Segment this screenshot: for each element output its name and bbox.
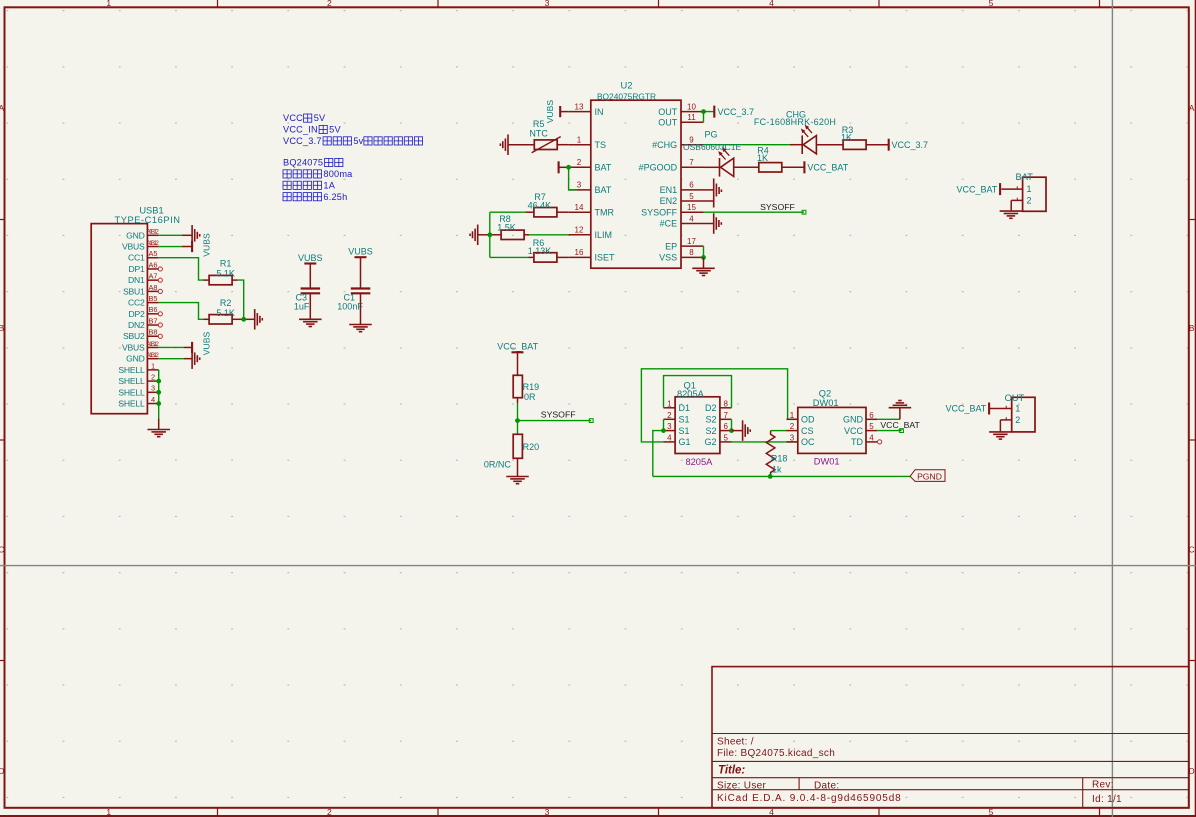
wire S1 pins (663, 419, 665, 430)
svg-text:2: 2 (577, 158, 582, 167)
svg-text:3: 3 (577, 181, 582, 190)
power bar at U2 BAT (558, 161, 560, 173)
svg-text:3: 3 (790, 434, 795, 443)
svg-text:3: 3 (151, 384, 155, 393)
svg-text:OUT: OUT (658, 117, 678, 127)
svg-text:CC1: CC1 (128, 253, 145, 263)
svg-text:5: 5 (869, 422, 874, 431)
ground below USB shell (147, 430, 170, 437)
wire CHG pin to LED (704, 144, 791, 146)
svg-text:1uF: 1uF (294, 301, 310, 311)
svg-text:5.1K: 5.1K (216, 269, 235, 279)
svg-text:6: 6 (869, 411, 874, 420)
svg-text:TMR: TMR (595, 207, 615, 217)
svg-text:C: C (0, 545, 4, 555)
ground right of Q1 (743, 420, 751, 441)
power symbol VCC_BAT at BAT (999, 183, 1001, 195)
wire VUBS to C1 (360, 257, 362, 288)
wire CS to R18 (771, 430, 787, 432)
wire ISET left (490, 256, 529, 258)
svg-text:11: 11 (687, 113, 696, 122)
ground at CE (714, 213, 722, 234)
power symbol VUBS at U2 IN (559, 106, 561, 117)
ground below OUT (989, 432, 1012, 439)
svg-text:1A: 1A (323, 180, 335, 190)
svg-text:ISET: ISET (595, 253, 616, 263)
svg-text:SHELL: SHELL (118, 399, 145, 409)
svg-text:EN2: EN2 (660, 196, 678, 206)
svg-text:VUBS: VUBS (298, 253, 323, 263)
svg-text:VCC_BAT: VCC_BAT (956, 184, 997, 194)
svg-text:A8: A8 (148, 283, 157, 292)
svg-text:5: 5 (689, 192, 694, 201)
svg-text:2: 2 (1015, 415, 1020, 425)
junction at OUT (701, 109, 706, 114)
svg-text:TS: TS (595, 140, 607, 150)
svg-text:VCC: VCC (283, 113, 303, 123)
junction SHELL3 (156, 390, 161, 395)
svg-text:Rev:: Rev: (1092, 780, 1114, 791)
svg-text:VCC_3.7: VCC_3.7 (718, 107, 755, 117)
IC U2 BQ24075RGTR (591, 100, 681, 268)
svg-text:VCC_BAT: VCC_BAT (807, 163, 848, 173)
wire USB VBUS pin (159, 246, 182, 248)
svg-text:17: 17 (687, 237, 696, 246)
svg-text:5: 5 (723, 434, 728, 443)
resistor R3 1K (843, 140, 866, 149)
ground below C1 (349, 325, 372, 332)
junction at SYSOFF (515, 418, 520, 423)
note text input limit 1A (283, 181, 291, 189)
wire USB GND pin (159, 234, 182, 236)
svg-text:1: 1 (577, 136, 582, 145)
svg-text:S2: S2 (705, 415, 716, 425)
svg-text:6: 6 (723, 422, 728, 431)
svg-text:R5: R5 (533, 119, 545, 129)
wire EP to VSS (703, 246, 705, 257)
transistor Q2 DW01 (798, 407, 866, 453)
wire junction to R20 (517, 421, 519, 435)
svg-text:D: D (0, 766, 4, 776)
svg-text:BQ24075RGTR: BQ24075RGTR (597, 91, 656, 101)
wire R3 to VCC_3.7 (866, 144, 889, 146)
capacitor C1 100nF (351, 287, 371, 289)
svg-text:R20: R20 (523, 442, 540, 452)
svg-text:D2: D2 (705, 403, 717, 413)
svg-text:14: 14 (575, 203, 584, 212)
transistor Q1 8205A (675, 397, 720, 454)
svg-text:BAT: BAT (1016, 172, 1034, 182)
unconnected pin marker TD (878, 440, 882, 444)
svg-text:5.1K: 5.1K (216, 308, 235, 318)
wire ground to R5 (508, 144, 534, 146)
svg-text:#CHG: #CHG (652, 140, 677, 150)
wire VCC pin to label (877, 430, 901, 432)
svg-text:S1: S1 (679, 426, 690, 436)
svg-text:SHELL: SHELL (118, 365, 145, 375)
wire R1 right (232, 279, 238, 281)
svg-text:A7: A7 (148, 272, 157, 281)
svg-text:1.5K: 1.5K (497, 223, 516, 233)
svg-text:4: 4 (689, 214, 694, 223)
svg-text:B5: B5 (148, 294, 157, 303)
svg-text:VBUS: VBUS (122, 242, 145, 252)
connector OUT (1012, 397, 1035, 432)
svg-text:Date:: Date: (814, 780, 839, 791)
wire R20 to ground (517, 458, 519, 476)
wire up to inverted ground (899, 408, 901, 420)
svg-text:1: 1 (1015, 404, 1020, 414)
svg-text:VBUS: VBUS (122, 342, 145, 352)
svg-text:7: 7 (689, 158, 694, 167)
wire end VCC_BAT (900, 429, 904, 433)
wire S2 to ground (732, 430, 743, 432)
svg-text:SHELL: SHELL (118, 376, 145, 386)
svg-text:S1: S1 (679, 415, 690, 425)
global label PGND (910, 470, 945, 482)
svg-text:VUBS: VUBS (348, 247, 373, 257)
wire S1 down to PGND net (653, 431, 664, 477)
svg-text:#PGOOD: #PGOOD (639, 163, 678, 173)
wire USB GND lower (159, 358, 184, 360)
junction at S1 pin3 (661, 428, 666, 433)
power symbol VCC_3.7 at OUT pin (713, 106, 715, 118)
svg-text:B8: B8 (148, 328, 157, 337)
ground at USB GND lower (192, 348, 200, 369)
svg-text:1k: 1k (772, 465, 782, 475)
wire OUT pins (704, 112, 715, 123)
power symbol VCC_3.7 right of R3 (888, 139, 890, 151)
svg-text:8: 8 (723, 399, 728, 408)
svg-text:B7: B7 (148, 316, 157, 325)
svg-text:5v: 5v (353, 136, 363, 146)
junction SHELL2 (156, 379, 161, 384)
svg-text:12: 12 (575, 226, 584, 235)
power symbol VCC_BAT right of R4 (803, 161, 805, 173)
svg-text:PGND: PGND (917, 472, 942, 482)
svg-text:DN2: DN2 (128, 320, 145, 330)
title block (712, 667, 1189, 808)
ground left of R8 (470, 225, 478, 246)
unconnected pin marker USB DN2 (158, 323, 162, 327)
svg-text:Title:: Title: (718, 765, 745, 777)
wire SHELL pins (158, 370, 160, 419)
svg-text:6.25h: 6.25h (323, 192, 347, 202)
svg-text:3: 3 (545, 0, 550, 8)
wire VCC_BAT to R19 (517, 352, 519, 375)
svg-text:BAT: BAT (595, 163, 612, 173)
unconnected pin marker USB SBU1 (158, 289, 162, 293)
wire VSS to ground (703, 257, 705, 268)
wire R4 to VCC_BAT (781, 166, 804, 168)
resistor R20 0R/NC (513, 434, 522, 458)
svg-text:IN: IN (595, 107, 604, 117)
svg-text:B: B (1189, 323, 1195, 333)
svg-text:7: 7 (723, 411, 728, 420)
svg-text:Id: 1/1: Id: 1/1 (1092, 794, 1122, 805)
svg-text:DN1: DN1 (128, 275, 145, 285)
junction at BAT pin2 (566, 165, 571, 170)
ground at USB GND pin (192, 225, 200, 246)
resistor R1 (209, 275, 232, 284)
svg-text:0R/NC: 0R/NC (484, 460, 512, 470)
capacitor C3 1uF (301, 287, 321, 289)
wire C1 to ground (360, 293, 362, 324)
wire CC2 to R2 (159, 303, 205, 320)
svg-text:C: C (1189, 545, 1195, 555)
resistor R8 1.5K (501, 230, 524, 239)
svg-text:2: 2 (790, 422, 795, 431)
svg-text:13: 13 (575, 102, 584, 111)
LED PG OSB60603C1E (718, 147, 734, 176)
svg-text:VUBS: VUBS (201, 332, 211, 356)
unconnected pin marker USB DP2 (158, 312, 162, 316)
note text time limit 6.25h (283, 193, 291, 201)
svg-text:4: 4 (769, 0, 774, 8)
svg-text:1.13K: 1.13K (528, 246, 552, 256)
svg-text:OUT: OUT (1005, 393, 1025, 403)
svg-text:B: B (0, 323, 4, 333)
wire D1 to D2 loop (664, 376, 732, 408)
svg-text:2: 2 (151, 372, 155, 381)
resistor R6 1.13K (534, 253, 557, 262)
ground below C3 (299, 319, 322, 326)
svg-text:VCC_BAT: VCC_BAT (945, 404, 986, 414)
unconnected pin marker USB DP1 (158, 267, 162, 271)
wire BAT2 to BAT3 (569, 167, 577, 190)
svg-text:5: 5 (989, 0, 994, 8)
svg-text:100nF: 100nF (337, 301, 363, 311)
svg-text:R19: R19 (523, 382, 540, 392)
resistor R4 1K (759, 163, 782, 172)
svg-text:3: 3 (667, 422, 672, 431)
svg-text:Sheet: /: Sheet: / (717, 737, 754, 748)
svg-text:VCC_BAT: VCC_BAT (497, 341, 538, 351)
svg-text:TYPE-C16PIN: TYPE-C16PIN (115, 215, 181, 225)
wire R19 to junction (517, 398, 519, 403)
junction at VSS (701, 255, 706, 260)
ground at EN1 EN2 (714, 179, 722, 208)
svg-text:SYSOFF: SYSOFF (760, 202, 795, 212)
svg-text:KiCad E.D.A. 9.0.4-8-g9d465905: KiCad E.D.A. 9.0.4-8-g9d465905d8 (717, 793, 902, 804)
svg-text:0R: 0R (524, 392, 536, 402)
svg-text:U2: U2 (621, 81, 633, 91)
svg-text:A6: A6 (148, 260, 157, 269)
wire CC1 to R1 (159, 258, 205, 280)
junction at S2 pin6 (729, 428, 734, 433)
svg-text:1K: 1K (841, 133, 852, 143)
note text charge current 800ma (283, 170, 291, 178)
svg-text:A: A (0, 103, 4, 113)
svg-text:SHELL: SHELL (118, 387, 145, 397)
svg-text:R18: R18 (771, 454, 788, 464)
ground below U2 (692, 268, 715, 275)
wire ground to R8 junction (478, 234, 490, 236)
svg-text:1: 1 (1027, 184, 1032, 194)
resistor R7 46.4K (534, 208, 557, 217)
svg-text:16: 16 (575, 248, 584, 257)
ground right of R2 (255, 309, 263, 330)
svg-text:EP: EP (665, 241, 677, 251)
resistor R2 (209, 315, 232, 324)
wire SYSOFF right (518, 420, 592, 422)
svg-text:6: 6 (689, 181, 694, 190)
svg-text:BQ24075: BQ24075 (283, 158, 323, 168)
svg-text:OC: OC (801, 437, 815, 447)
svg-text:PG: PG (704, 129, 717, 139)
thermistor R5 NTC (534, 140, 557, 150)
connector USB1 TYPE-C16PIN (91, 224, 147, 414)
svg-text:2: 2 (327, 807, 332, 817)
ground below R20 (506, 477, 529, 484)
wire LED to R4 (734, 166, 760, 168)
svg-text:46.4K: 46.4K (528, 201, 552, 211)
svg-text:VCC_3.7: VCC_3.7 (892, 140, 929, 150)
wire G1 loop to Q2 OD (641, 369, 797, 442)
svg-text:VSS: VSS (659, 253, 677, 263)
svg-text:VUBS: VUBS (201, 233, 211, 257)
svg-text:1: 1 (790, 411, 795, 420)
wire TMR left (490, 211, 526, 213)
svg-text:S2: S2 (705, 426, 716, 436)
resistor R19 0R (513, 375, 522, 397)
svg-text:3: 3 (545, 807, 550, 817)
wire TMR-ILIM-ISET vertical (489, 212, 491, 257)
svg-text:SBU1: SBU1 (123, 286, 145, 296)
wire C3 to ground (309, 293, 311, 319)
svg-text:G2: G2 (704, 437, 716, 447)
power symbol VUBS at USB top (191, 241, 193, 252)
wire R6 to ISET (557, 256, 568, 258)
svg-text:B6: B6 (148, 305, 157, 314)
svg-text:4: 4 (869, 434, 874, 443)
svg-text:8: 8 (689, 248, 694, 257)
svg-text:1: 1 (106, 807, 111, 817)
wire LED to R3 (816, 144, 843, 146)
wire CE to ground (704, 223, 714, 225)
wire junction to R8 (490, 234, 502, 236)
wire OUT pin2 to ground (999, 420, 1001, 432)
unconnected pin marker USB SBU2 (158, 334, 162, 338)
svg-text:D1: D1 (679, 403, 691, 413)
svg-text:VCC_IN: VCC_IN (283, 125, 318, 135)
svg-text:OSB60603C1E: OSB60603C1E (683, 142, 741, 152)
wire G2 to Q2 OC (732, 441, 798, 443)
wire BAT pin2 to ground (1010, 200, 1012, 211)
svg-text:CC2: CC2 (128, 298, 145, 308)
svg-text:1: 1 (667, 399, 672, 408)
svg-text:SYSOFF: SYSOFF (541, 409, 576, 419)
wire R5 to TS (557, 144, 568, 146)
junction SHELL4 (156, 401, 161, 406)
svg-text:#CE: #CE (660, 219, 678, 229)
svg-text:1: 1 (151, 361, 155, 370)
svg-text:8205A: 8205A (677, 389, 705, 399)
svg-text:800ma: 800ma (323, 169, 353, 179)
svg-text:2: 2 (1027, 195, 1032, 205)
svg-text:GND: GND (843, 415, 864, 425)
svg-text:OD: OD (801, 415, 815, 425)
svg-text:DP2: DP2 (128, 309, 145, 319)
svg-text:15: 15 (687, 203, 696, 212)
svg-text:NTC: NTC (529, 129, 548, 139)
unconnected pin marker USB DN1 (158, 278, 162, 282)
svg-text:VCC_3.7: VCC_3.7 (283, 136, 322, 146)
svg-text:1: 1 (106, 0, 111, 8)
connector BAT (1023, 177, 1046, 211)
svg-text:R2: R2 (220, 298, 232, 308)
svg-text:CS: CS (801, 426, 814, 436)
svg-text:DP1: DP1 (128, 264, 145, 274)
svg-text:VUBS: VUBS (545, 100, 555, 124)
wire EN1 EN2 to ground (704, 189, 714, 191)
wire S2 pins (731, 419, 733, 430)
ground below BAT (1000, 211, 1023, 218)
junction at R1/R2 (241, 317, 246, 322)
svg-text:10: 10 (687, 102, 696, 111)
svg-text:GND: GND (126, 354, 145, 364)
power symbol VCC_BAT at OUT (988, 403, 990, 415)
svg-text:4: 4 (667, 434, 672, 443)
wire R8 to ILIM (524, 234, 529, 236)
svg-text:File: BQ24075.kicad_sch: File: BQ24075.kicad_sch (717, 748, 835, 759)
svg-text:USB1: USB1 (139, 206, 163, 216)
svg-text:A: A (1189, 103, 1195, 113)
wire to PGND (653, 475, 910, 477)
svg-text:FC-1608HRK-620H: FC-1608HRK-620H (754, 117, 836, 127)
svg-text:R1: R1 (220, 259, 232, 269)
svg-text:EN1: EN1 (660, 185, 678, 195)
junction at R8 left (487, 232, 492, 237)
svg-text:8205A: 8205A (685, 457, 713, 467)
wire R7 to TMR (557, 211, 568, 213)
svg-text:1K: 1K (757, 153, 768, 163)
svg-text:DW01: DW01 (814, 456, 840, 466)
svg-text:2: 2 (667, 411, 672, 420)
wire end SYSOFF lower (589, 419, 593, 423)
wire R2 right (232, 318, 244, 320)
svg-text:A5: A5 (148, 249, 157, 258)
wire USB VBUS lower (159, 346, 184, 348)
wire VUBS to C3 (309, 264, 311, 289)
svg-text:SYSOFF: SYSOFF (641, 207, 678, 217)
svg-text:4: 4 (151, 395, 155, 404)
wire SYSOFF from pin15 (704, 211, 805, 213)
svg-text:SBU2: SBU2 (123, 331, 145, 341)
svg-text:2: 2 (327, 0, 332, 8)
svg-text:5V: 5V (329, 125, 341, 135)
svg-text:TD: TD (851, 437, 863, 447)
svg-text:G1: G1 (679, 437, 691, 447)
power symbol VUBS at USB bottom (191, 342, 193, 353)
wire GND pin right (877, 418, 900, 420)
svg-text:5V: 5V (314, 113, 326, 123)
ground left of R5 (500, 134, 508, 155)
svg-text:DW01: DW01 (813, 398, 839, 408)
LED CHG FC-1608HRK-620H (801, 125, 817, 154)
wire end SYSOFF (802, 210, 806, 214)
svg-text:OUT: OUT (658, 107, 678, 117)
svg-text:ILIM: ILIM (595, 230, 613, 240)
svg-text:Size: User: Size: User (717, 780, 766, 791)
junction at R18 bottom (768, 474, 773, 479)
svg-text:VCC: VCC (844, 426, 864, 436)
resistor R18 1k (766, 431, 775, 477)
inverted ground above Q2 (889, 401, 912, 408)
svg-text:BAT: BAT (595, 185, 612, 195)
wire PGOOD pin to LED (704, 166, 720, 168)
svg-text:GND: GND (126, 230, 145, 240)
